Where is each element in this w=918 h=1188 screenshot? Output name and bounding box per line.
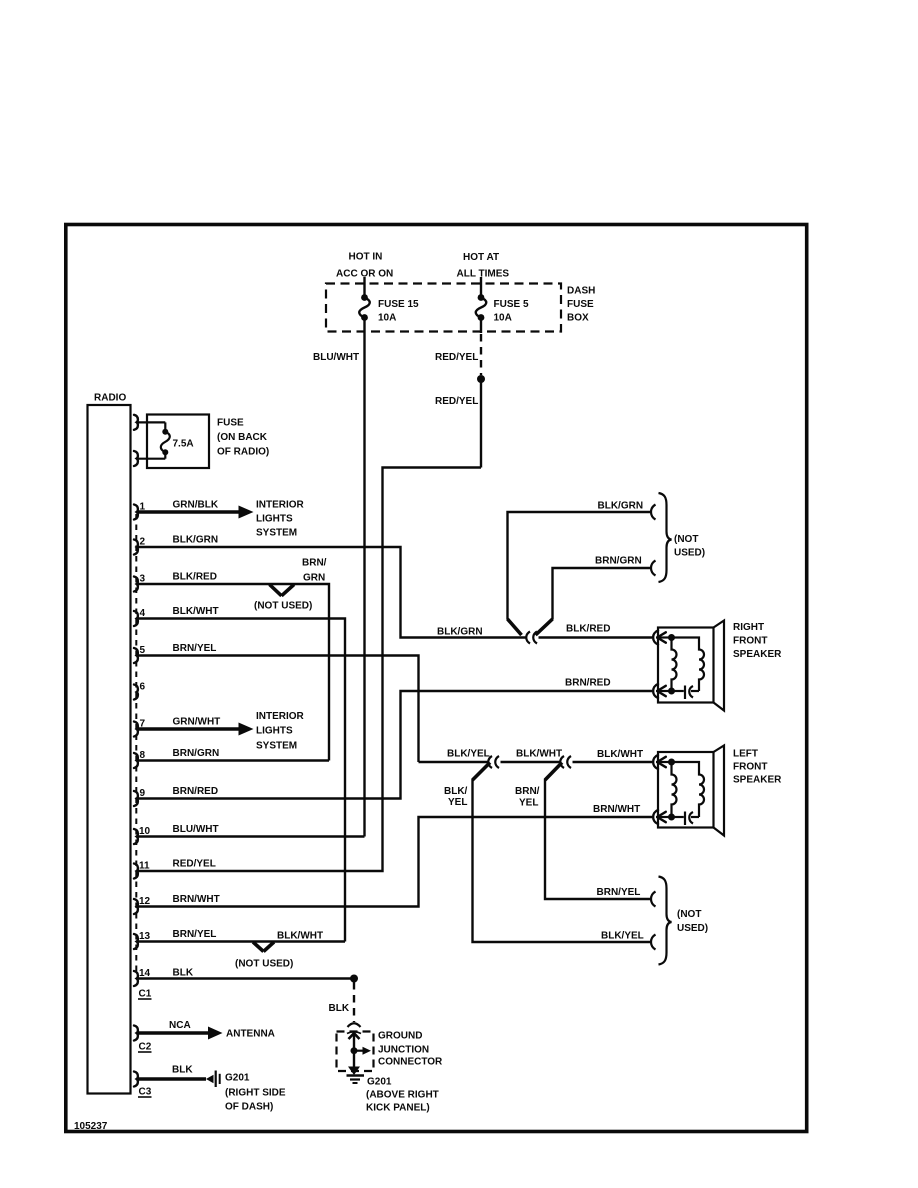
svg-text:BLK/GRN: BLK/GRN: [598, 501, 644, 512]
svg-text:USED): USED): [674, 548, 705, 559]
svg-text:BRN/RED: BRN/RED: [565, 678, 611, 689]
svg-text:LEFT: LEFT: [733, 749, 758, 760]
svg-text:14: 14: [139, 968, 151, 979]
svg-text:8: 8: [140, 750, 146, 761]
svg-text:CONNECTOR: CONNECTOR: [378, 1057, 443, 1068]
svg-text:KICK PANEL): KICK PANEL): [366, 1103, 430, 1114]
svg-text:(NOT USED): (NOT USED): [235, 959, 293, 970]
svg-text:SPEAKER: SPEAKER: [733, 775, 782, 786]
svg-text:USED): USED): [677, 923, 708, 934]
svg-text:BLK/WHT: BLK/WHT: [516, 749, 562, 760]
svg-text:BLU/WHT: BLU/WHT: [313, 352, 359, 363]
svg-text:(RIGHT SIDE: (RIGHT SIDE: [225, 1088, 286, 1099]
svg-text:C1: C1: [139, 989, 152, 1000]
svg-text:LIGHTS: LIGHTS: [256, 514, 293, 525]
svg-text:1: 1: [140, 502, 146, 513]
svg-text:BRN/RED: BRN/RED: [173, 786, 219, 797]
svg-text:(NOT USED): (NOT USED): [254, 601, 312, 612]
svg-text:BLK/WHT: BLK/WHT: [597, 749, 643, 760]
svg-text:G201: G201: [225, 1073, 250, 1084]
svg-text:FRONT: FRONT: [733, 762, 767, 773]
svg-text:BOX: BOX: [567, 313, 589, 324]
svg-text:BLK/YEL: BLK/YEL: [601, 931, 644, 942]
svg-text:9: 9: [140, 788, 146, 799]
svg-text:BLK/GRN: BLK/GRN: [437, 627, 483, 638]
svg-text:10A: 10A: [378, 313, 396, 324]
svg-text:BLK/WHT: BLK/WHT: [173, 606, 219, 617]
svg-text:BLK/GRN: BLK/GRN: [173, 535, 219, 546]
svg-text:5: 5: [140, 645, 146, 656]
svg-text:RIGHT: RIGHT: [733, 622, 764, 633]
svg-text:BLK: BLK: [173, 968, 194, 979]
svg-text:10A: 10A: [494, 313, 512, 324]
svg-text:NCA: NCA: [169, 1020, 191, 1031]
svg-text:INTERIOR: INTERIOR: [256, 711, 305, 722]
svg-text:SYSTEM: SYSTEM: [256, 528, 297, 539]
svg-text:RED/YEL: RED/YEL: [435, 396, 478, 407]
svg-text:OF RADIO): OF RADIO): [217, 447, 269, 458]
svg-text:OF DASH): OF DASH): [225, 1102, 273, 1113]
svg-text:RED/YEL: RED/YEL: [173, 859, 216, 870]
svg-text:JUNCTION: JUNCTION: [378, 1045, 429, 1056]
svg-text:FUSE: FUSE: [217, 418, 244, 429]
svg-text:FUSE 15: FUSE 15: [378, 299, 419, 310]
svg-text:BRN/WHT: BRN/WHT: [173, 894, 220, 905]
svg-text:BRN/YEL: BRN/YEL: [173, 643, 217, 654]
svg-text:(ABOVE RIGHT: (ABOVE RIGHT: [366, 1090, 439, 1101]
svg-text:LIGHTS: LIGHTS: [256, 726, 293, 737]
svg-text:7.5A: 7.5A: [173, 439, 194, 450]
svg-text:GRN: GRN: [303, 573, 325, 584]
svg-text:ALL TIMES: ALL TIMES: [457, 269, 510, 280]
svg-text:BLK/YEL: BLK/YEL: [447, 749, 490, 760]
svg-text:HOT IN: HOT IN: [349, 252, 383, 263]
svg-text:BLK/RED: BLK/RED: [566, 624, 610, 635]
svg-text:4: 4: [140, 608, 146, 619]
svg-text:(NOT: (NOT: [677, 909, 701, 920]
svg-text:HOT AT: HOT AT: [463, 252, 499, 263]
svg-text:6: 6: [140, 682, 146, 693]
svg-text:FUSE: FUSE: [567, 299, 594, 310]
svg-text:RADIO: RADIO: [94, 393, 126, 404]
svg-text:SPEAKER: SPEAKER: [733, 649, 782, 660]
svg-text:BLK/: BLK/: [444, 786, 468, 797]
svg-text:INTERIOR: INTERIOR: [256, 500, 305, 511]
svg-text:(NOT: (NOT: [674, 534, 698, 545]
svg-text:BLU/WHT: BLU/WHT: [173, 824, 219, 835]
svg-text:BRN/: BRN/: [515, 786, 540, 797]
svg-text:10: 10: [139, 826, 151, 837]
svg-text:13: 13: [139, 931, 151, 942]
svg-text:BRN/GRN: BRN/GRN: [173, 748, 220, 759]
svg-text:G201: G201: [367, 1077, 392, 1088]
svg-text:2: 2: [140, 537, 146, 548]
svg-text:12: 12: [139, 896, 151, 907]
svg-text:RED/YEL: RED/YEL: [435, 352, 478, 363]
svg-text:GRN/BLK: GRN/BLK: [173, 500, 219, 511]
svg-text:GROUND: GROUND: [378, 1031, 422, 1042]
svg-text:105237: 105237: [74, 1121, 108, 1132]
svg-text:BLK/WHT: BLK/WHT: [277, 931, 323, 942]
svg-text:ANTENNA: ANTENNA: [226, 1029, 275, 1040]
svg-text:3: 3: [140, 574, 146, 585]
svg-text:SYSTEM: SYSTEM: [256, 741, 297, 752]
svg-text:(ON BACK: (ON BACK: [217, 432, 268, 443]
svg-text:BLK: BLK: [172, 1065, 193, 1076]
svg-text:BRN/GRN: BRN/GRN: [595, 556, 642, 567]
svg-text:BRN/YEL: BRN/YEL: [173, 929, 217, 940]
svg-text:BRN/YEL: BRN/YEL: [597, 887, 641, 898]
svg-text:C3: C3: [139, 1087, 152, 1098]
svg-text:BLK/RED: BLK/RED: [173, 572, 217, 583]
svg-text:BRN/WHT: BRN/WHT: [593, 804, 640, 815]
svg-text:BLK: BLK: [329, 1003, 350, 1014]
svg-text:GRN/WHT: GRN/WHT: [173, 717, 221, 728]
svg-text:C2: C2: [139, 1042, 152, 1053]
svg-text:FUSE 5: FUSE 5: [494, 299, 529, 310]
svg-text:11: 11: [139, 861, 150, 872]
svg-text:7: 7: [140, 719, 146, 730]
svg-text:BRN/: BRN/: [302, 558, 327, 569]
svg-text:FRONT: FRONT: [733, 636, 767, 647]
svg-text:YEL: YEL: [519, 798, 538, 809]
svg-text:YEL: YEL: [448, 797, 467, 808]
svg-text:DASH: DASH: [567, 286, 595, 297]
